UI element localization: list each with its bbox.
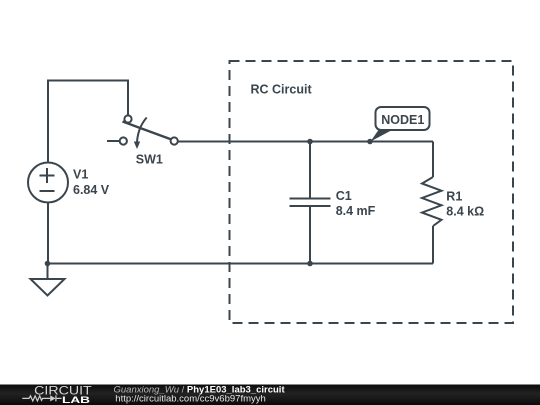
wire bottom rail [48, 263, 434, 265]
node flag NODE1 [371, 107, 430, 142]
junction node C1 top [307, 139, 313, 145]
svg-text:8.4 mF: 8.4 mF [336, 204, 376, 218]
junction node ground [45, 261, 51, 267]
svg-text:http://circuitlab.com/cc9v6b97: http://circuitlab.com/cc9v6b97fmyyh [115, 393, 265, 404]
resistor R1 [422, 177, 442, 226]
svg-text:NODE1: NODE1 [381, 113, 424, 127]
svg-text:SW1: SW1 [136, 152, 163, 166]
ground [31, 279, 65, 296]
wire capacitor branch top [309, 142, 311, 199]
junction node NODE1 [367, 139, 373, 145]
logo CircuitLab [22, 384, 92, 405]
capacitor C1 [290, 199, 331, 207]
wire resistor branch top [432, 142, 434, 178]
svg-text:V1: V1 [73, 168, 88, 182]
junction node C1 bottom [307, 261, 313, 267]
svg-text:LAB: LAB [62, 395, 90, 405]
svg-text:C1: C1 [336, 189, 352, 203]
wire capacitor branch bottom [309, 207, 311, 264]
voltage source V1 [28, 163, 68, 203]
svg-text:6.84 V: 6.84 V [73, 183, 110, 197]
wire switch to resistor branch (main top wire) [178, 141, 433, 143]
footer bar [0, 385, 540, 405]
wire V1 top to switch [48, 81, 128, 163]
wire resistor branch bottom [432, 226, 434, 264]
switch SW1 [107, 115, 178, 149]
wire ground stub [47, 264, 49, 280]
svg-text:RC Circuit: RC Circuit [251, 83, 313, 97]
svg-text:8.4 kΩ: 8.4 kΩ [446, 204, 484, 218]
svg-text:R1: R1 [446, 190, 462, 204]
wire V1 bottom to ground node [47, 203, 49, 264]
dashed enclosure RC Circuit [230, 61, 514, 323]
